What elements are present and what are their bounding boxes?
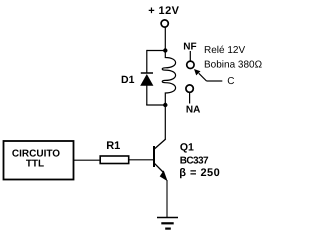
relay contact NF terminal [187,61,194,68]
relay switch arm to C [194,69,222,81]
svg-text:C: C [227,76,234,87]
svg-text:β = 250: β = 250 [179,167,220,179]
svg-text:R1: R1 [106,140,120,152]
wire box to resistor [74,159,100,161]
wire NF stub [189,51,191,61]
wire diode cathode lead [146,50,148,73]
resistor R1 [100,156,129,164]
diode D1 [140,73,153,86]
node bottom junction [163,103,167,107]
svg-text:BC337: BC337 [180,155,209,166]
wire NA stub [189,93,191,104]
relay coil [162,51,175,106]
svg-text:+ 12V: + 12V [148,5,179,17]
transistor Q1 [154,139,168,181]
wire emitter to ground [166,180,168,218]
svg-text:Bobina 380Ω: Bobina 380Ω [204,59,263,70]
relay contact NA terminal [186,85,193,92]
wire bottom junction to collector [164,105,166,139]
svg-text:NF: NF [183,41,196,52]
svg-text:Relé 12V: Relé 12V [204,45,245,56]
wire diode anode lead [146,85,148,105]
wire diode branch to bottom junction [146,104,165,106]
svg-text:D1: D1 [121,74,135,86]
wire terminal to top junction [164,27,166,50]
box CIRCUITO TTL [4,141,74,180]
svg-text:NA: NA [186,104,200,115]
wire resistor to base [130,159,154,161]
wire top junction to diode branch [147,50,166,52]
svg-text:TTL: TTL [26,159,44,170]
svg-text:Q1: Q1 [180,141,194,153]
ground [157,218,178,229]
+12V supply terminal [161,20,168,27]
node top junction [163,48,167,52]
